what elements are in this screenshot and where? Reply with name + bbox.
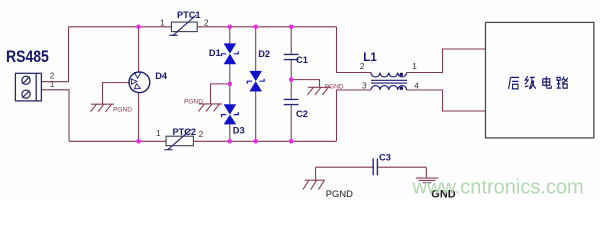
svg-text:C2: C2 — [296, 109, 308, 119]
svg-text:1: 1 — [412, 61, 417, 71]
svg-text:PGND: PGND — [113, 106, 132, 113]
svg-text:D1: D1 — [209, 48, 221, 58]
svg-text:RS485: RS485 — [6, 48, 49, 66]
svg-text:1: 1 — [160, 17, 165, 27]
svg-text:D2: D2 — [258, 49, 270, 59]
svg-text:1: 1 — [156, 128, 161, 138]
svg-text:PGND: PGND — [325, 84, 344, 91]
svg-text:PTC1: PTC1 — [177, 10, 201, 20]
svg-text:L1: L1 — [363, 52, 377, 64]
svg-text:PTC2: PTC2 — [173, 127, 197, 137]
svg-text:D3: D3 — [233, 125, 245, 135]
svg-text:2: 2 — [199, 129, 204, 139]
svg-text:2: 2 — [360, 61, 365, 71]
svg-text:2: 2 — [204, 17, 209, 27]
svg-text:1: 1 — [50, 79, 55, 89]
svg-text:www.cntronics.com: www.cntronics.com — [412, 176, 584, 198]
svg-text:PGND: PGND — [326, 188, 353, 199]
svg-text:4: 4 — [414, 81, 419, 91]
svg-text:C3: C3 — [379, 152, 391, 162]
svg-text:PGND: PGND — [184, 99, 203, 106]
svg-text:D4: D4 — [155, 71, 168, 81]
svg-text:C1: C1 — [296, 55, 308, 65]
svg-text:3: 3 — [362, 81, 367, 91]
